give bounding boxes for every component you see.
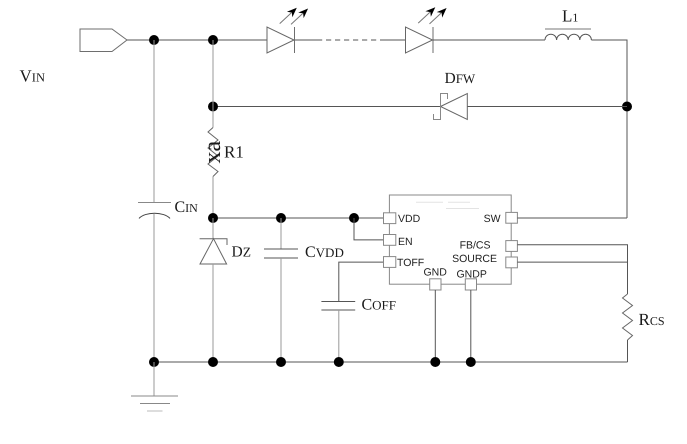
pin VDD (384, 213, 396, 224)
svg-text:COFF: COFF (362, 296, 397, 313)
capacitor COFF (321, 302, 355, 363)
svg-text:xa: xa (200, 141, 226, 164)
pin SOURCE (506, 257, 518, 268)
svg-text:GNDP: GNDP (457, 268, 487, 280)
node at CIN branch (149, 35, 159, 45)
node gnd COFF (334, 357, 344, 367)
wire R1 bottom (212, 177, 214, 219)
svg-text:DFW: DFW (445, 70, 476, 87)
pin TOFF (384, 257, 396, 268)
LED D1 (267, 9, 307, 54)
wire LED2 to L1 (433, 39, 545, 41)
node gnd GNDP (466, 357, 476, 367)
pin FB/CS (506, 241, 518, 252)
node CVDD (276, 213, 286, 223)
wire dashed LED string (295, 39, 317, 41)
svg-text:FB/CS: FB/CS (460, 239, 491, 251)
node DFW left (208, 102, 218, 112)
svg-text:VDD: VDD (398, 213, 421, 225)
resistor RCS (623, 294, 633, 340)
node gnd DZ (208, 357, 218, 367)
op IC U1 body (389, 195, 511, 284)
zener DZ (200, 218, 227, 362)
capacitor CIN (138, 203, 171, 219)
wire SW (517, 217, 627, 219)
wire GND pin down (434, 290, 436, 362)
wire CIN bottom (153, 214, 155, 362)
wire GNDP pin down (470, 290, 472, 362)
pin EN (384, 235, 396, 246)
svg-text:SOURCE: SOURCE (452, 253, 497, 265)
svg-text:SW: SW (484, 213, 501, 225)
wire VDD to EN (354, 218, 384, 240)
inductor L1 (545, 34, 591, 40)
node gnd CIN (149, 357, 159, 367)
node DFW right (622, 102, 632, 112)
wire ground rail (154, 361, 628, 363)
resistor R1 (208, 128, 218, 177)
svg-text:CIN: CIN (175, 199, 199, 216)
capacitor CVDD (264, 218, 298, 362)
wire DFW row left (213, 106, 441, 108)
svg-text:GND: GND (424, 267, 448, 279)
wire RCS bottom (627, 340, 629, 362)
svg-text:CVDD: CVDD (305, 244, 344, 261)
wire DFW row right (467, 106, 627, 108)
svg-text:EN: EN (398, 236, 413, 248)
wire SOURCE (517, 261, 627, 263)
node at R1 branch (208, 35, 218, 45)
node gnd GND (430, 357, 440, 367)
svg-text:RCS: RCS (639, 310, 665, 329)
node VDD/EN (349, 213, 359, 223)
svg-text:R1: R1 (224, 142, 244, 161)
wire R1 top (212, 40, 214, 128)
wire top rail (127, 39, 267, 41)
pin SW (506, 212, 518, 223)
svg-text:DZ: DZ (232, 243, 251, 260)
svg-text:TOFF: TOFF (397, 257, 424, 269)
LED D2 (406, 8, 446, 53)
diode DFW (schottky) (434, 94, 468, 120)
wire CIN top (153, 40, 155, 203)
wire L1 to right corner (591, 40, 627, 218)
L1 label line (545, 28, 591, 30)
svg-text:L1: L1 (562, 6, 578, 25)
wire FB/CS (517, 245, 627, 294)
node gnd CVDD (276, 357, 286, 367)
faint part marking (416, 202, 479, 208)
ground (131, 362, 178, 411)
wire VDD rail (213, 217, 384, 219)
VIN input tag (80, 29, 127, 52)
svg-text:VIN: VIN (20, 66, 45, 85)
pin GND (430, 279, 441, 290)
wire TOFF to COFF (339, 262, 384, 301)
node R1/DZ (208, 213, 218, 223)
pin GNDP (465, 279, 476, 290)
